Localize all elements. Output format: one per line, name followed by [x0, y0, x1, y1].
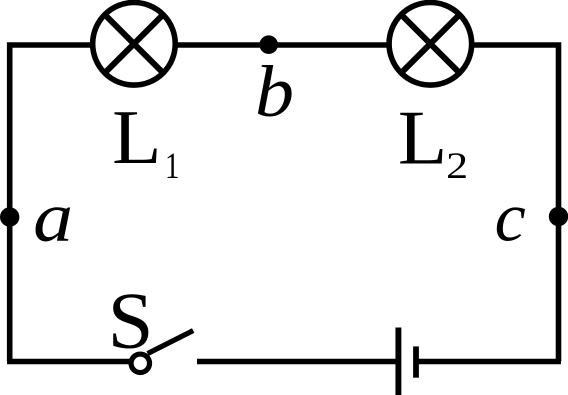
wire: main loop (left, top, right conductors): [10, 45, 559, 362]
lamp L1: [93, 3, 176, 86]
node a: [0, 207, 19, 226]
node c: [549, 207, 568, 226]
wire: bottom-left segment from corner to switch pivot: [7, 359, 140, 365]
wire: bottom-right segment from battery short plate to corner: [416, 359, 561, 365]
switch S: lever arm: [148, 331, 194, 354]
svg-text:c: c: [495, 180, 526, 257]
svg-text:1: 1: [165, 146, 179, 187]
lamp L2: [389, 3, 472, 86]
svg-text:a: a: [33, 179, 73, 257]
svg-text:b: b: [255, 51, 294, 132]
svg-text:S: S: [108, 277, 154, 365]
switch S: pivot circle: [131, 354, 150, 373]
svg-text:2: 2: [446, 146, 468, 187]
battery: long plate: [395, 328, 401, 395]
svg-text:L: L: [112, 94, 161, 180]
node b: [259, 35, 278, 54]
battery: short plate: [413, 346, 419, 377]
svg-text:L: L: [398, 95, 447, 181]
wire: bottom middle segment from switch to battery long plate: [197, 359, 396, 365]
